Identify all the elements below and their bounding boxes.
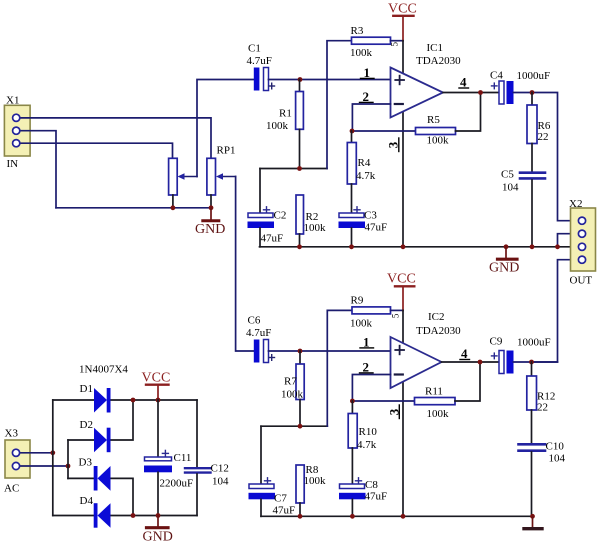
- wire bias node R1 bottom: [260, 168, 327, 170]
- capacitor C6 4.7uF: [246, 315, 275, 363]
- power VCC (top): [388, 2, 417, 41]
- svg-text:AC: AC: [4, 483, 19, 495]
- resistor R9 100k: [350, 295, 391, 330]
- svg-text:C11: C11: [174, 452, 192, 464]
- svg-text:D1: D1: [80, 383, 93, 395]
- svg-text:100k: 100k: [350, 47, 373, 59]
- pin 1 label IC1: [361, 65, 375, 80]
- node R1/C2: [297, 166, 302, 171]
- capacitor C2 47uF: [248, 169, 287, 247]
- wire RP1 bottom rail: [56, 207, 211, 209]
- svg-text:C2: C2: [274, 210, 287, 222]
- SEC-POWER: [4, 364, 229, 544]
- svg-text:R3: R3: [351, 25, 364, 37]
- diode D2: [80, 419, 111, 452]
- svg-text:D4: D4: [80, 495, 94, 507]
- node C3 gnd: [349, 244, 354, 249]
- pin 4 label IC1: [459, 75, 469, 90]
- resistor R11 100k: [415, 386, 456, 421]
- svg-text:100k: 100k: [266, 120, 289, 132]
- wire R3 right to VCC line: [391, 40, 404, 42]
- connector X2: [569, 198, 596, 287]
- wire X3 pin2 to D2/D3 node: [19, 465, 68, 467]
- resistor R4 4.7k: [347, 131, 375, 213]
- node VCC rail: [156, 398, 161, 403]
- wire RP1b wiper to C6: [236, 177, 254, 352]
- wire pin2 node to R5: [352, 130, 416, 132]
- wire X1 pin1 to RP1 pot2 top: [19, 118, 211, 158]
- wire X3 pin1 to bridge left: [19, 452, 53, 454]
- resistor R3 100k: [350, 25, 391, 59]
- wire IC1 supply/pin3 vertical: [402, 41, 404, 247]
- svg-text:47uF: 47uF: [273, 505, 296, 517]
- node R8 gnd: [298, 514, 303, 519]
- resistor R8 100k: [296, 464, 326, 516]
- svg-text:C1: C1: [248, 43, 261, 55]
- power VCC (bridge): [142, 371, 171, 401]
- capacitor C5 104: [501, 169, 545, 247]
- svg-text:RP1: RP1: [217, 145, 236, 157]
- node IC1 pin2/R4: [350, 129, 355, 134]
- svg-text:22: 22: [537, 402, 548, 414]
- svg-text:104: 104: [502, 182, 519, 194]
- svg-text:4: 4: [461, 346, 468, 361]
- resistor R10 4.7k: [348, 401, 377, 484]
- connector X1: [4, 95, 30, 171]
- node R6 top: [530, 90, 535, 95]
- wire IC2 supply/pin3 vertical: [402, 310, 404, 516]
- capacitor C8 47uF: [339, 478, 387, 517]
- svg-text:R11: R11: [425, 386, 443, 398]
- wire IC2 pin2: [352, 375, 390, 402]
- capacitor C3 47uF: [339, 207, 388, 247]
- svg-text:VCC: VCC: [142, 371, 171, 386]
- wire X2 pin4 to IC2 output: [533, 260, 582, 362]
- svg-text:1000uF: 1000uF: [517, 70, 551, 82]
- potentiometer RP1a body: [169, 158, 197, 208]
- wire bottom ground rail: [261, 515, 533, 517]
- wire R5 right to output: [456, 93, 481, 132]
- svg-text:104: 104: [549, 453, 566, 465]
- svg-text:VCC: VCC: [387, 272, 416, 287]
- op-amp IC1 TDA2030: [391, 42, 462, 118]
- wire bridge bottom rail: [53, 515, 94, 517]
- svg-text:4.7uF: 4.7uF: [247, 55, 272, 67]
- SEC-TOPAMP: [4, 2, 595, 363]
- svg-text:C8: C8: [365, 479, 378, 491]
- diode D4: [80, 495, 111, 528]
- capacitor C10 104: [519, 441, 566, 517]
- svg-text:100k: 100k: [427, 135, 450, 147]
- svg-text:X2: X2: [569, 198, 582, 210]
- capacitor C12 104: [185, 400, 229, 516]
- svg-text:IC1: IC1: [427, 42, 444, 54]
- node RP1b bottom: [209, 205, 214, 210]
- svg-text:OUT: OUT: [570, 275, 593, 287]
- wire top ground rail: [260, 246, 583, 248]
- svg-text:R10: R10: [359, 426, 378, 438]
- resistor R2 100k: [296, 195, 326, 247]
- wire bridge top rail: [53, 399, 94, 401]
- svg-text:X3: X3: [5, 428, 19, 440]
- svg-text:C9: C9: [490, 336, 503, 348]
- svg-text:100k: 100k: [304, 222, 327, 234]
- node X2 pin2 gnd: [555, 244, 560, 249]
- wire C1 to IC1 pin1: [269, 79, 391, 81]
- wire C9 to X2 leg: [513, 361, 557, 363]
- node output/feedback 2: [478, 360, 483, 365]
- svg-text:D2: D2: [80, 419, 93, 431]
- node RP1a bottom: [171, 205, 176, 210]
- X3 pin circles: [12, 449, 19, 469]
- svg-text:22: 22: [538, 131, 549, 143]
- svg-text:4.7k: 4.7k: [356, 170, 376, 182]
- svg-text:C4: C4: [490, 70, 503, 82]
- capacitor C1 4.7uF: [247, 43, 275, 91]
- resistor R5 100k: [416, 114, 456, 147]
- diode D1: [80, 383, 111, 413]
- svg-text:R5: R5: [427, 114, 440, 126]
- node IC2 pin3 gnd: [401, 514, 406, 519]
- pin 1 label IC2: [360, 335, 374, 350]
- svg-text:TDA2030: TDA2030: [416, 325, 461, 337]
- svg-text:GND: GND: [489, 261, 519, 276]
- capacitor C11 2200uF: [144, 400, 193, 516]
- diode D3: [79, 457, 111, 491]
- resistor R6 22: [527, 93, 551, 172]
- capacitor C7 47uF: [249, 426, 296, 516]
- node C5 gnd: [530, 244, 535, 249]
- wire X2 pin2 to rail: [558, 234, 583, 247]
- node X3 pin1: [50, 450, 55, 455]
- svg-text:C5: C5: [501, 169, 514, 181]
- X1 pin circles: [13, 114, 20, 147]
- node IC2 pin2/R10: [350, 399, 355, 404]
- svg-text:2200uF: 2200uF: [160, 478, 194, 490]
- svg-text:100k: 100k: [304, 475, 327, 487]
- wire riser to R3 left: [327, 41, 352, 169]
- connector X3: [4, 428, 30, 495]
- resistor R7 100k: [281, 351, 304, 426]
- svg-text:IN: IN: [7, 158, 19, 170]
- svg-text:100k: 100k: [350, 318, 373, 330]
- node C1/R1: [298, 77, 303, 82]
- node C6/R7: [298, 349, 303, 354]
- svg-text:GND: GND: [195, 222, 225, 237]
- op-amp IC2 TDA2030: [391, 311, 462, 388]
- node R2 gnd: [297, 244, 302, 249]
- svg-text:C6: C6: [248, 315, 261, 327]
- node X3 pin2: [66, 464, 71, 469]
- svg-text:104: 104: [212, 476, 229, 488]
- node D2 cathode rail: [131, 398, 136, 403]
- wire IC1 pin2: [352, 104, 390, 131]
- svg-text:VCC: VCC: [388, 2, 417, 17]
- wire IC1 output to C4: [443, 92, 499, 94]
- wire X1 pin2 down leg: [19, 131, 56, 208]
- ground (bottom rail end): [524, 514, 542, 529]
- node IC1 pin3 gnd: [401, 244, 406, 249]
- svg-text:4: 4: [460, 75, 467, 90]
- node R12 top: [529, 360, 534, 365]
- node output/feedback: [478, 90, 483, 95]
- svg-text:5: 5: [390, 42, 400, 47]
- node C8 gnd: [350, 514, 355, 519]
- pin 3 label IC1: [386, 138, 401, 152]
- node C11 gnd: [156, 513, 161, 518]
- svg-text:47uF: 47uF: [261, 233, 284, 245]
- svg-text:C12: C12: [211, 463, 229, 475]
- svg-text:4.7uF: 4.7uF: [246, 327, 271, 339]
- svg-text:X1: X1: [6, 95, 19, 107]
- pin 4 label IC2: [460, 346, 470, 361]
- ground GND (top rail): [489, 244, 519, 275]
- wire riser to R9 left: [327, 310, 352, 426]
- wire C6 to IC2 pin1: [269, 350, 391, 352]
- pin 2 label IC1: [360, 89, 374, 104]
- svg-text:R7: R7: [284, 376, 297, 388]
- svg-text:47uF: 47uF: [365, 491, 388, 503]
- wire R9 right to VCC line: [391, 309, 404, 311]
- svg-text:R9: R9: [351, 295, 364, 307]
- capacitor C4 1000uF: [490, 70, 550, 105]
- svg-text:R1: R1: [279, 108, 292, 120]
- svg-text:100k: 100k: [427, 408, 450, 420]
- svg-text:TDA2030: TDA2030: [416, 55, 461, 67]
- svg-text:5: 5: [391, 313, 401, 318]
- ground GND (under RP1): [195, 208, 225, 237]
- svg-text:4.7k: 4.7k: [357, 439, 377, 451]
- svg-text:IC2: IC2: [428, 311, 445, 323]
- pin 3 label IC2: [387, 405, 402, 419]
- wire C4 to X2 pin1: [513, 93, 582, 221]
- svg-text:C10: C10: [546, 441, 565, 453]
- ground GND (bridge): [143, 516, 173, 544]
- svg-text:R4: R4: [358, 157, 371, 169]
- wire pin2 node to R11: [352, 400, 415, 402]
- wire D2/D3 anode link: [67, 440, 69, 478]
- power VCC (mid): [387, 272, 416, 311]
- wire X1 pin3 to RP1 pot1 top: [19, 143, 173, 158]
- svg-text:1000uF: 1000uF: [517, 337, 551, 349]
- svg-text:47uF: 47uF: [365, 222, 388, 234]
- wire IC2 output to C9: [442, 361, 500, 363]
- node D3 anode rail: [131, 513, 136, 518]
- svg-text:C3: C3: [364, 210, 377, 222]
- resistor R12 22: [527, 362, 556, 443]
- potentiometer RP1b body: [207, 158, 236, 208]
- capacitor C9 1000uF: [490, 336, 551, 374]
- wire bridge left frame: [52, 400, 54, 516]
- wire RP1a wiper riser to C1: [197, 80, 254, 177]
- wire bias node R7 bottom: [261, 425, 327, 427]
- svg-text:C7: C7: [274, 493, 287, 505]
- resistor R1 100k: [266, 80, 303, 169]
- svg-text:1N4007X4: 1N4007X4: [79, 364, 128, 376]
- svg-text:100k: 100k: [281, 389, 304, 401]
- svg-text:D3: D3: [79, 457, 93, 469]
- SEC-BOTAMP: [236, 177, 566, 529]
- wire R11 right to output: [455, 362, 480, 401]
- node R7/C7: [298, 424, 303, 429]
- wire D2 row: [68, 439, 94, 441]
- svg-text:GND: GND: [143, 530, 173, 544]
- pin 2 label IC2: [360, 360, 374, 375]
- wire D3 row: [68, 477, 94, 479]
